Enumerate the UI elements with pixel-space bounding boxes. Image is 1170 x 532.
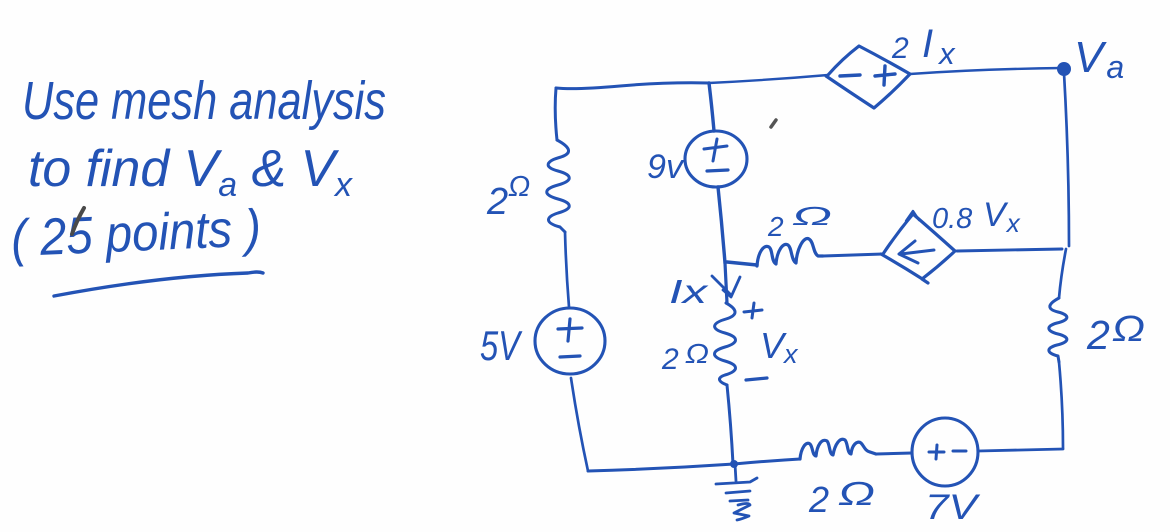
underline flourish — [54, 272, 263, 296]
dependent source U2 0.8Vx diamond — [881, 214, 955, 283]
svg-text:Vx: Vx — [760, 325, 799, 369]
resistor R2 middle 2 ohm — [757, 239, 823, 266]
V1 minus sign — [560, 356, 580, 357]
source V2 9V circle — [685, 131, 747, 187]
wire R5 to ground junction — [734, 459, 800, 464]
wire R2 to 0.8Vx source — [823, 254, 883, 256]
stray pencil mark top — [771, 120, 776, 127]
stray pencil mark over 25 — [72, 208, 84, 234]
wire Va down right side — [1064, 73, 1069, 246]
svg-text:2: 2 — [1086, 312, 1110, 358]
svg-text:Ix: Ix — [922, 22, 956, 71]
V2 plus sign — [704, 139, 727, 161]
wire 5V to resistor R1 — [565, 232, 569, 307]
svg-text:Ω: Ω — [838, 475, 875, 512]
svg-text:9v: 9v — [647, 148, 685, 186]
resistor R5 bottom 2 ohm — [800, 439, 876, 459]
U1 minus sign — [840, 75, 860, 76]
svg-text:7V: 7V — [925, 488, 981, 527]
resistor R4 right 2 ohm — [1049, 298, 1067, 362]
resistor R3 middle vertical 2 ohm — [715, 303, 736, 385]
svg-text:2: 2 — [891, 32, 909, 65]
svg-text:2: 2 — [661, 343, 679, 376]
wire down to resistor R4 — [1059, 249, 1066, 298]
wire junction to R3 — [725, 263, 727, 303]
wire R1 to top left corner — [555, 88, 557, 140]
Ix current arrow — [712, 276, 740, 297]
svg-text:Ω: Ω — [792, 201, 832, 231]
svg-text:to find Va & Vx: to find Va & Vx — [28, 140, 353, 204]
V2 minus sign — [707, 170, 728, 171]
label minus of Vx — [746, 378, 767, 380]
svg-text:Vx: Vx — [983, 196, 1021, 238]
wire junction stub to R2 — [727, 262, 757, 265]
ground junction dot — [730, 460, 738, 468]
dependent source U1 2Ix diamond — [826, 46, 910, 108]
wire R3 to ground junction — [727, 385, 733, 464]
wire right horizontal from 0.8Vx source — [957, 249, 1062, 251]
svg-text:Ix: Ix — [669, 273, 709, 310]
U2 internal arrow — [899, 241, 934, 263]
wire up to 5V source — [571, 378, 588, 471]
ground symbol — [716, 464, 757, 520]
svg-text:Ω: Ω — [1112, 308, 1145, 349]
svg-text:2Ω: 2Ω — [486, 171, 530, 223]
svg-text:Use mesh analysis: Use mesh analysis — [22, 71, 386, 131]
svg-text:2: 2 — [808, 479, 829, 520]
V1 plus sign — [558, 319, 582, 341]
node Va dot — [1057, 62, 1071, 76]
svg-text:5V: 5V — [480, 322, 523, 369]
label plus of Vx — [744, 303, 762, 318]
V3 minus sign — [953, 450, 966, 453]
svg-text:( 25 points ): ( 25 points ) — [10, 199, 262, 268]
wire bottom right corner to 7V source — [978, 449, 1063, 451]
wire bottom left — [588, 464, 734, 471]
svg-text:2: 2 — [767, 211, 784, 242]
V3 plus sign — [929, 445, 944, 459]
svg-text:Ω: Ω — [685, 338, 709, 369]
wire R4 to bottom right corner — [1059, 362, 1063, 448]
source V3 7V circle — [912, 418, 978, 486]
wire 9V down to junction — [718, 187, 725, 263]
svg-text:Va: Va — [1074, 33, 1124, 85]
resistor R1 left 2 ohm — [547, 140, 570, 232]
U1 plus sign — [875, 66, 895, 85]
wire top middle to dependent source — [709, 75, 828, 83]
U2 apex arrow — [906, 211, 919, 221]
wire U1 to node Va — [910, 68, 1062, 74]
wire top-left horizontal — [556, 83, 709, 89]
wire 9V branch from top — [709, 83, 714, 131]
wire 7V to resistor R5 — [876, 453, 912, 454]
source V1 5V circle — [535, 308, 605, 374]
svg-text:0.8: 0.8 — [932, 203, 972, 235]
